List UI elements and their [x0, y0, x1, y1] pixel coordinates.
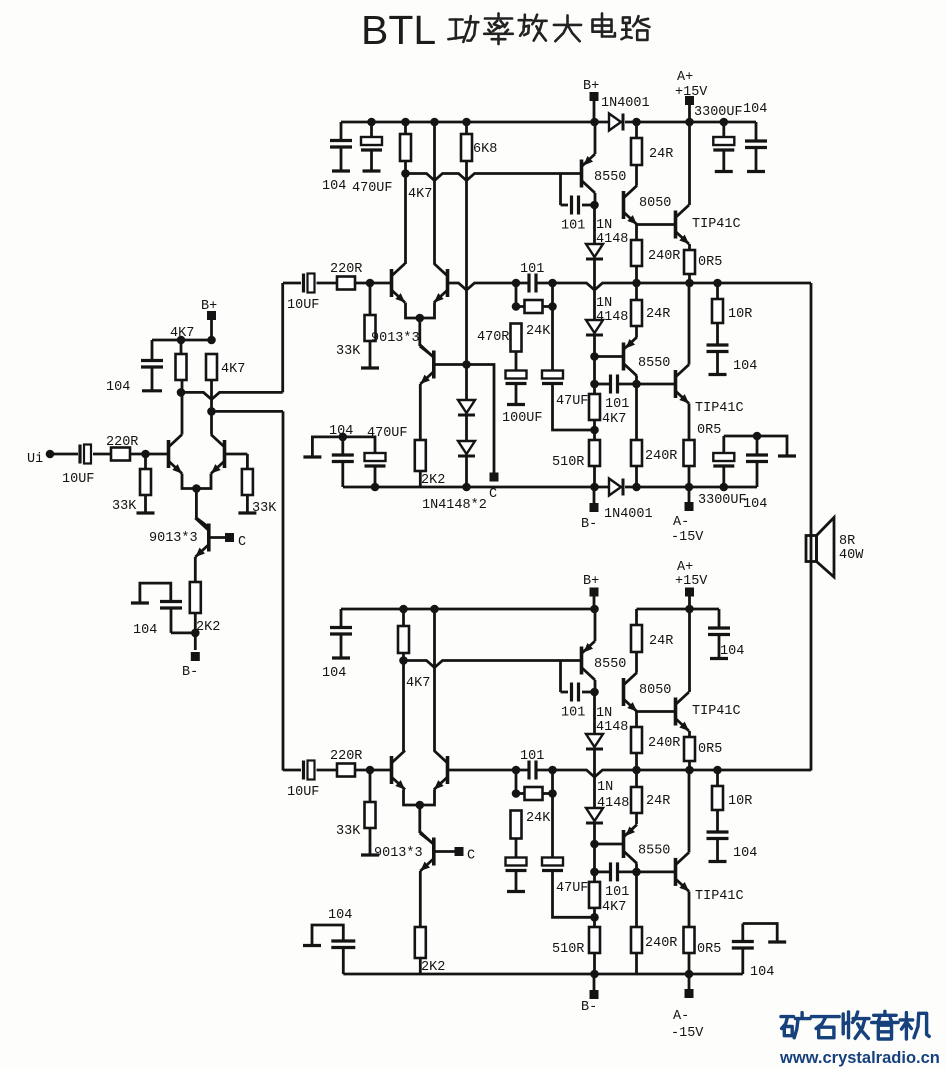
resistor 6K8 [461, 134, 472, 161]
wire base bias to diode chain [435, 363, 467, 366]
wire TIP41C base [637, 710, 676, 713]
node on negative rail [632, 483, 641, 492]
transistor current source 9013 [432, 838, 436, 866]
transistor 8550 (lower) [622, 830, 626, 858]
svg-text:240R: 240R [648, 736, 680, 751]
wire common emitters [404, 790, 435, 806]
node on output rail [713, 279, 722, 288]
node on rail [399, 605, 408, 614]
node first-stage right collector tap [207, 407, 216, 416]
svg-text:2K2: 2K2 [196, 620, 220, 635]
wire [635, 466, 638, 487]
wire [246, 495, 249, 513]
resistor 240R (lower) [631, 440, 642, 466]
svg-text:240R: 240R [645, 936, 677, 951]
capacitor 3300UF (+ rail) [722, 122, 725, 137]
resistor 0R5 (upper) [684, 250, 695, 274]
wire [595, 383, 611, 386]
resistor 33K (amp input bias) [365, 315, 376, 341]
wire [210, 320, 213, 340]
node [512, 302, 521, 311]
resistor 24R (lower) [631, 300, 642, 326]
node 8550 collector [590, 688, 599, 697]
wire [465, 415, 468, 441]
wire right collector to rail [433, 609, 436, 751]
wire right collector to rail [433, 122, 436, 264]
svg-text:4K7: 4K7 [602, 900, 626, 915]
wire [553, 871, 595, 917]
wire first-stage output to top amp [181, 392, 283, 399]
terminal C [455, 847, 464, 856]
capacitor 104 (rail bypass) [340, 122, 343, 141]
resistor 0R5 (lower) [684, 927, 695, 953]
wire [593, 693, 596, 734]
capacitor 47UF (feedback) [551, 307, 554, 371]
node common emitters [192, 484, 201, 493]
svg-text:1N: 1N [596, 296, 612, 311]
node [632, 380, 641, 389]
wire to terminal C [467, 365, 495, 473]
terminal B+ (first stage) [207, 311, 216, 320]
wire output rail [449, 769, 529, 772]
svg-text:101: 101 [605, 885, 629, 900]
svg-text:220R: 220R [330, 262, 362, 277]
node [371, 483, 380, 492]
resistor 2K2 (first stage) [190, 582, 201, 613]
wire output rail [449, 283, 529, 290]
svg-text:0R5: 0R5 [698, 742, 722, 757]
wire [593, 749, 596, 808]
svg-text:A-: A- [673, 1009, 689, 1024]
svg-text:A-: A- [673, 515, 689, 530]
ground stub [137, 511, 155, 514]
node [512, 789, 521, 798]
svg-text:33K: 33K [336, 824, 361, 839]
resistor 240R (8050 emitter) [631, 240, 642, 266]
capacitor 104 (mid decoupling) [312, 437, 375, 457]
node net right [548, 766, 557, 775]
wire 101 stub [559, 174, 562, 206]
svg-text:40W: 40W [839, 548, 864, 563]
svg-text:101: 101 [520, 749, 544, 764]
resistor 220R (input stage) [111, 448, 130, 461]
svg-text:A+: A+ [677, 560, 693, 575]
wire [688, 953, 691, 974]
terminal B- [593, 487, 596, 504]
wire supply rail [341, 121, 609, 124]
resistor 240R (lower) [631, 927, 642, 953]
svg-text:1N: 1N [597, 780, 613, 795]
transistor Q3 (first stage current source, 9013) [207, 524, 211, 552]
svg-text:10UF: 10UF [62, 472, 94, 487]
svg-text:220R: 220R [106, 435, 138, 450]
resistor 4K7 (feedback lower) [589, 394, 600, 420]
diode 1N4148 (bias chain b) [458, 441, 475, 454]
node [207, 336, 216, 345]
wire [716, 283, 719, 299]
wire negative rail [343, 486, 609, 489]
wire collector [594, 680, 597, 692]
svg-text:9013*3: 9013*3 [149, 531, 198, 546]
svg-text:1N4148*2: 1N4148*2 [422, 498, 487, 513]
wire [635, 652, 638, 673]
diode 1N4001 (supply) [609, 114, 621, 131]
svg-text:24R: 24R [649, 147, 673, 162]
wire base to terminal C [435, 850, 455, 853]
diode 1N4148 (vbe chain 1) [586, 244, 603, 257]
node on first-stage supply wire [177, 336, 186, 345]
wire TIP41C base [637, 223, 676, 226]
terminal B- [593, 974, 596, 991]
wire left collector [404, 161, 407, 264]
resistor 0R5 (upper) [684, 737, 695, 761]
wire [515, 352, 518, 371]
wire to 8550 base [406, 174, 582, 181]
wire collector [594, 193, 597, 205]
svg-text:24R: 24R [646, 307, 670, 322]
svg-text:104: 104 [322, 666, 346, 681]
terminal B+ [590, 588, 599, 597]
svg-text:240R: 240R [645, 449, 677, 464]
svg-text:0R5: 0R5 [697, 942, 721, 957]
svg-text:B+: B+ [201, 299, 217, 314]
svg-text:24K: 24K [526, 811, 551, 826]
svg-text:-15V: -15V [671, 530, 704, 545]
svg-text:8R: 8R [839, 534, 855, 549]
wire [716, 770, 719, 786]
svg-text:240R: 240R [648, 249, 680, 264]
wire [688, 274, 691, 283]
speaker 8R 40W [806, 536, 817, 562]
node on negative rail [462, 483, 471, 492]
capacitor 10UF (amp input) [302, 274, 305, 293]
node 101/4K7 [590, 380, 599, 389]
svg-text:4148: 4148 [596, 720, 628, 735]
terminal B- (first stage) [191, 652, 200, 661]
node on output rail [632, 766, 641, 775]
svg-text:4K7: 4K7 [406, 676, 430, 691]
wire emitter [688, 731, 691, 737]
transistor diff pair right 9013 [446, 269, 450, 297]
terminal A+ +15V [685, 96, 694, 105]
wire stub terminator [724, 436, 787, 455]
capacitor 104 (first stage emitter bypass) [140, 583, 171, 603]
transistor 8550 (driver upper) [580, 160, 584, 188]
svg-text:104: 104 [750, 965, 774, 980]
svg-text:6K8: 6K8 [473, 142, 497, 157]
wire [582, 204, 595, 207]
node 104 join [191, 629, 200, 638]
resistor 510R [589, 927, 600, 953]
node on rail [462, 118, 471, 127]
resistor 33K (amp input bias) [365, 802, 376, 828]
svg-text:3300UF: 3300UF [698, 493, 747, 508]
wire emitter [688, 244, 691, 250]
resistor 470R [511, 324, 522, 352]
svg-text:4148: 4148 [596, 310, 628, 325]
capacitor 100UF [506, 371, 527, 379]
resistor 24R (upper) [631, 625, 642, 652]
svg-text:33K: 33K [112, 499, 137, 514]
capacitor 101 (8550 speedup) [570, 683, 573, 702]
node net left [512, 279, 521, 288]
wire negative rail [343, 973, 743, 976]
wire base lower 8550 [595, 843, 624, 846]
svg-text:TIP41C: TIP41C [695, 889, 744, 904]
svg-text:220R: 220R [330, 749, 362, 764]
node [632, 868, 641, 877]
node [753, 432, 762, 441]
terminal C [490, 473, 499, 482]
node 8550 lower base [590, 352, 599, 361]
svg-text:B-: B- [182, 665, 198, 680]
resistor 4K7 (left load) [400, 134, 411, 161]
wire [180, 340, 183, 354]
ground stub [238, 511, 256, 514]
svg-text:4K7: 4K7 [602, 412, 626, 427]
wire [635, 266, 638, 283]
node B+ on rail [590, 605, 599, 614]
resistor 24K (feedback) [515, 770, 518, 794]
wire [688, 466, 691, 487]
svg-text:104: 104 [322, 179, 346, 194]
capacitor 101 (lower feedback) [609, 375, 612, 394]
svg-text:10R: 10R [728, 307, 752, 322]
transistor Q1 (first stage diff pair left, 9013) [167, 440, 171, 468]
node [548, 789, 557, 798]
resistor 4K7 (feedback lower) [589, 882, 600, 908]
wire [369, 770, 372, 802]
svg-text:101: 101 [520, 262, 544, 277]
resistor 4K7 (first stage right load) [206, 354, 217, 380]
wire [625, 486, 757, 489]
node A- on negative rail [685, 483, 694, 492]
svg-text:510R: 510R [552, 455, 584, 470]
svg-text:47UF: 47UF [556, 881, 588, 896]
wire speaker feed [810, 283, 813, 771]
svg-text:1N: 1N [596, 706, 612, 721]
wire [593, 953, 596, 974]
node A+ on rail [685, 118, 694, 127]
capacitor 101 (feedback) [527, 761, 530, 780]
wire A+ spur [637, 608, 690, 611]
svg-text:10R: 10R [728, 794, 752, 809]
wire [144, 454, 147, 469]
node on rail [430, 605, 439, 614]
resistor 0R5 (lower) [684, 440, 695, 466]
wire [130, 453, 167, 456]
wire emitter [688, 891, 691, 927]
input terminal Ui [46, 450, 55, 459]
wire first-stage output to bottom amp [212, 410, 284, 413]
wire [93, 453, 111, 456]
svg-text:0R5: 0R5 [698, 255, 722, 270]
svg-text:B+: B+ [583, 79, 599, 94]
svg-text:TIP41C: TIP41C [692, 217, 741, 232]
ground stub [361, 366, 379, 369]
capacitor 104 (zobel) [707, 343, 729, 346]
wire [418, 318, 421, 346]
node A1 [141, 450, 150, 459]
wire [194, 613, 197, 650]
wire [635, 753, 638, 770]
resistor 220R (amp input) [337, 764, 355, 777]
svg-text:104: 104 [743, 497, 767, 512]
wire [369, 283, 372, 315]
wire [369, 828, 372, 855]
svg-text:0R5: 0R5 [697, 423, 721, 438]
node on rail [401, 118, 410, 127]
wire emitter junction [635, 712, 638, 728]
resistor 33K (first stage right bias) [242, 469, 253, 495]
svg-text:+15V: +15V [675, 574, 708, 589]
node on rail [430, 118, 439, 127]
transistor diff pair right 9013 [446, 756, 450, 784]
transistor 8050 [622, 678, 626, 706]
svg-text:104: 104 [328, 908, 352, 923]
transistor Q2 (first stage diff pair right, 9013) [223, 440, 227, 468]
resistor 220R (amp input) [337, 277, 355, 290]
wire emitter to rail [594, 609, 597, 641]
wire [635, 283, 638, 300]
wire base lower 8550 [595, 355, 624, 358]
wire collector [635, 376, 638, 384]
capacitor 3300UF (- rail) [713, 453, 734, 461]
resistor 10R (zobel) [712, 299, 723, 323]
wire collector to output rail [688, 770, 691, 852]
resistor 24R (upper) [631, 138, 642, 165]
wire input coupling [283, 282, 301, 285]
wire [635, 770, 638, 787]
node collector/output tap [399, 656, 408, 665]
node net left [512, 766, 521, 775]
wire TIP41C lower base [637, 871, 676, 874]
svg-text:1N4001: 1N4001 [604, 507, 653, 522]
svg-text:24R: 24R [646, 794, 670, 809]
transistor 8550 (driver upper) [580, 647, 584, 675]
capacitor 104 (mid decoupling) [312, 925, 343, 946]
transistor TIP41C (upper) [674, 698, 678, 726]
svg-text:1N4001: 1N4001 [601, 96, 650, 111]
wire 101 stub [559, 661, 562, 693]
wire [582, 691, 595, 694]
wire [625, 121, 756, 124]
svg-text:+15V: +15V [675, 85, 708, 100]
wire [593, 205, 596, 244]
wire [688, 761, 691, 770]
svg-text:9013*3: 9013*3 [371, 331, 420, 346]
transistor diff pair left 9013 [390, 756, 394, 784]
wire [635, 165, 638, 186]
resistor 4K7 (left load) [398, 626, 409, 653]
svg-text:33K: 33K [336, 344, 361, 359]
capacitor 104 (- rail) [746, 453, 768, 456]
node A- on negative rail [685, 970, 694, 979]
svg-text:470UF: 470UF [352, 181, 393, 196]
title text [450, 18, 463, 21]
wire [355, 282, 390, 285]
node 47UF join [590, 913, 599, 922]
svg-text:9013*3: 9013*3 [374, 846, 423, 861]
wire base to C [209, 536, 225, 539]
svg-text:104: 104 [733, 846, 757, 861]
node [462, 360, 471, 369]
wire [419, 958, 422, 974]
terminal A+ +15V [685, 588, 694, 597]
svg-text:100UF: 100UF [502, 411, 543, 426]
watermark logo text [781, 1015, 794, 1018]
node [339, 433, 348, 442]
diode 1N4148 (vbe chain) [586, 734, 603, 747]
svg-text:8550: 8550 [638, 844, 670, 859]
node [720, 483, 729, 492]
wire right collector [210, 380, 213, 435]
node [367, 118, 376, 127]
wire [593, 259, 596, 320]
wire [181, 392, 184, 434]
svg-text:104: 104 [720, 644, 744, 659]
resistor 510R [589, 440, 600, 466]
wire [225, 453, 248, 456]
node 47UF join [590, 426, 599, 435]
svg-text:-15V: -15V [671, 1026, 704, 1041]
terminal A- -15V [688, 487, 691, 503]
wire [593, 335, 596, 394]
diode 1N4148 (bias chain a) [458, 400, 475, 413]
terminal C (first stage) [225, 533, 234, 542]
wire common emitters [406, 303, 435, 319]
wire to 8550 base [404, 661, 582, 668]
wire [402, 609, 405, 626]
wire [635, 953, 638, 974]
transistor TIP41C (upper) [674, 211, 678, 239]
wire [317, 282, 338, 285]
node on rail [632, 118, 641, 127]
capacitor 470UF (rail bypass) [370, 122, 373, 137]
svg-text:4148: 4148 [596, 232, 628, 247]
node 8550 collector [590, 201, 599, 210]
wire [553, 384, 595, 430]
svg-text:www.crystalradio.cn: www.crystalradio.cn [779, 1049, 940, 1067]
transistor diff pair left 9013 [390, 269, 394, 297]
wire [418, 805, 421, 833]
wire input coupling [283, 769, 301, 772]
wire emitter [419, 871, 422, 927]
svg-text:8550: 8550 [594, 657, 626, 672]
wire emitter [419, 384, 422, 440]
svg-text:TIP41C: TIP41C [692, 704, 741, 719]
svg-text:B-: B- [581, 517, 597, 532]
transistor TIP41C (lower) [674, 370, 678, 398]
diode 1N4148 (vbe chain lower) [586, 808, 603, 821]
svg-text:10UF: 10UF [287, 785, 319, 800]
wire supply rail [341, 608, 594, 611]
svg-text:104: 104 [743, 102, 767, 117]
svg-text:47UF: 47UF [556, 394, 588, 409]
resistor 4K7 (first stage left load) [176, 354, 187, 380]
node on output rail [685, 279, 694, 288]
wire [317, 769, 338, 772]
wire [593, 420, 596, 440]
transistor 8550 (lower) [622, 343, 626, 371]
svg-text:3300UF: 3300UF [694, 105, 743, 120]
node on output rail [685, 766, 694, 775]
wire [419, 471, 422, 487]
capacitor 104 (rail bypass) [340, 609, 343, 628]
wire [635, 384, 638, 440]
node A+ on rail [685, 605, 694, 614]
svg-text:8550: 8550 [594, 170, 626, 185]
